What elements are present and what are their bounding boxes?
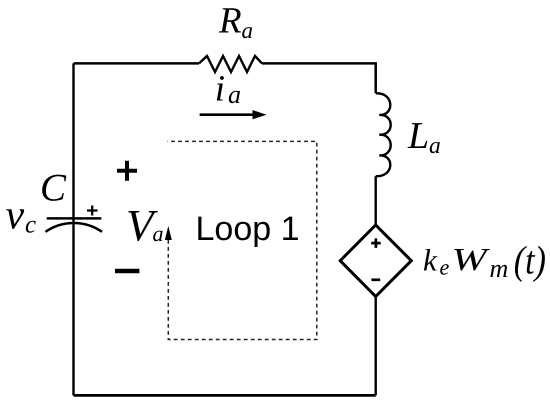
- loop 1 dashed boundary: [168, 141, 317, 339]
- wire below source: [375, 297, 377, 395]
- loop arrowhead: [165, 226, 172, 240]
- svg-text:e: e: [440, 255, 450, 280]
- svg-text:m: m: [490, 254, 509, 283]
- svg-text:L: L: [407, 115, 429, 157]
- capacitor C curved plate: [46, 223, 103, 232]
- svg-text:v: v: [6, 192, 25, 238]
- minus sign of Va: [115, 269, 139, 274]
- svg-text:k: k: [423, 242, 438, 277]
- wire bottom horizontal: [74, 394, 376, 397]
- svg-text:(t): (t): [514, 238, 546, 283]
- source plus sign: [371, 238, 381, 248]
- inductor La: [376, 93, 391, 176]
- wire between inductor and source: [375, 176, 377, 224]
- wire left vertical: [72, 63, 74, 395]
- svg-text:a: a: [228, 80, 241, 109]
- source minus sign: [371, 278, 380, 281]
- svg-text:c: c: [25, 211, 36, 238]
- svg-text:a: a: [153, 221, 164, 246]
- wire top-left horizontal: [74, 62, 200, 65]
- capacitor C top plate: [47, 217, 102, 220]
- svg-text:a: a: [242, 18, 254, 43]
- svg-text:C: C: [40, 167, 67, 210]
- svg-text:Loop 1: Loop 1: [196, 210, 300, 248]
- plus sign of Va: [117, 161, 137, 181]
- current arrow i_a: [200, 113, 254, 116]
- dependent source diamond ke*Wm(t): [340, 225, 411, 297]
- wire top-right horizontal and corner: [262, 63, 376, 93]
- capacitor plus sign: [87, 206, 98, 216]
- svg-text:W: W: [452, 241, 492, 277]
- resistor Ra: [199, 56, 262, 72]
- svg-text:i: i: [215, 68, 225, 109]
- svg-text:a: a: [429, 133, 441, 159]
- svg-text:R: R: [218, 1, 242, 42]
